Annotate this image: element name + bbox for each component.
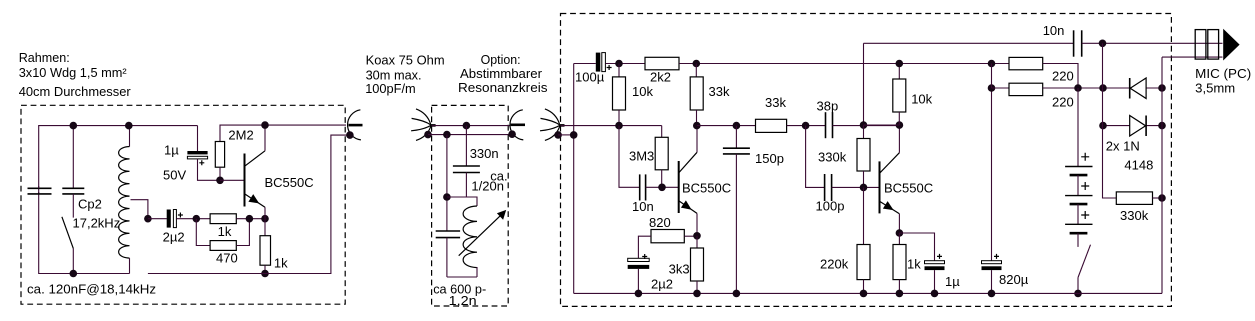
svg-text:Rahmen:: Rahmen: <box>19 50 70 65</box>
capacitor 150p <box>723 126 750 294</box>
svg-text:10k: 10k <box>911 92 932 107</box>
wire tap to C2u2 <box>148 218 167 220</box>
wire collector line Q2 <box>864 124 900 126</box>
node base Q2 <box>860 184 868 192</box>
resistor 1k (horizontal, emitter pair) <box>210 214 236 224</box>
wire jog down to R470 <box>196 219 210 246</box>
capacitor 820u <box>982 88 1002 293</box>
svg-text:3,5mm: 3,5mm <box>1195 81 1235 96</box>
node ground 2u2 <box>635 290 643 298</box>
capacitor 330n / 1-20n <box>453 126 480 197</box>
svg-text:ca. 120nF@18,14kHz: ca. 120nF@18,14kHz <box>27 282 156 297</box>
diode D2 1N4148 <box>1130 116 1146 137</box>
node LC top <box>443 193 451 201</box>
wire center conductor <box>432 125 511 127</box>
dashed border middle box <box>432 105 509 306</box>
svg-text:220: 220 <box>1052 69 1074 84</box>
svg-text:Abstimmbarer: Abstimmbarer <box>460 66 543 81</box>
wire shield column down <box>446 135 448 231</box>
node emitter ground <box>261 270 269 278</box>
resistor 330k stage2 bias <box>857 125 870 187</box>
coax connector B (middle box input) <box>411 109 436 140</box>
capacitor 2u2 stage1 <box>628 254 650 293</box>
capacitor 10n output <box>1074 30 1223 56</box>
node output rail diode column <box>1099 40 1107 48</box>
wire R470 right jog up <box>236 219 249 246</box>
node 150p tap <box>733 122 741 130</box>
node tap junction <box>144 215 152 223</box>
node base Q1 <box>658 184 666 192</box>
svg-text:1k: 1k <box>274 256 288 271</box>
wire diode column left <box>1103 43 1117 198</box>
svg-text:150p: 150p <box>755 151 784 166</box>
node collector top <box>261 121 269 129</box>
svg-text:BC550C: BC550C <box>884 181 933 196</box>
wire ground rail <box>574 292 1162 294</box>
resistor 2M2 <box>215 142 224 168</box>
wire C2u2 to R1k <box>176 218 210 220</box>
node emitter junction <box>261 215 269 223</box>
wire 330k right <box>1153 197 1163 199</box>
wire node A down <box>806 126 825 188</box>
wire collector line <box>697 125 756 127</box>
svg-text:17,2kHz: 17,2kHz <box>73 215 121 230</box>
svg-text:820µ: 820µ <box>999 272 1029 287</box>
node d1 left <box>1099 84 1107 92</box>
node 330n tap <box>463 122 471 130</box>
node 10k stage2 rail <box>896 60 904 68</box>
transistor Q1 BC550C stage1 <box>679 126 697 236</box>
wire node to coil top <box>447 197 477 206</box>
svg-text:2x 1N: 2x 1N <box>1106 139 1140 154</box>
capacitor 100u electrolytic <box>596 53 612 72</box>
svg-text:1k: 1k <box>218 224 232 239</box>
node shield branch <box>443 131 451 139</box>
node ground 1k <box>896 290 904 298</box>
wire Cp2 column <box>72 126 74 189</box>
svg-text:2M2: 2M2 <box>228 127 253 142</box>
capacitor Cp2 <box>62 188 84 194</box>
resistor 330k output <box>1116 192 1152 205</box>
svg-text:Koax 75 Ohm: Koax 75 Ohm <box>366 53 445 68</box>
wire riser collector to output rail <box>863 43 865 125</box>
wire v-rail main <box>679 63 1009 65</box>
resistor 1k stage2 <box>893 233 906 293</box>
node collector Q1 <box>693 122 701 130</box>
wire collector top line to coax <box>220 125 346 141</box>
svg-text:Option:: Option: <box>481 52 521 67</box>
wire input shield stub <box>558 134 574 136</box>
capacitor 2u2 electrolytic <box>167 210 183 228</box>
wire base <box>220 179 245 181</box>
svg-text:2µ2: 2µ2 <box>651 277 673 292</box>
svg-text:Cp2: Cp2 <box>78 197 102 212</box>
wire bottom right segment <box>148 135 350 273</box>
wire diode row 1 <box>1103 87 1162 89</box>
resistor 10k stage1 <box>613 64 626 126</box>
svg-text:100pF/m: 100pF/m <box>365 81 416 96</box>
node input <box>615 122 623 130</box>
resistor 33k horizontal <box>756 119 787 132</box>
capacitor 1u 50V electrolytic <box>187 126 220 181</box>
wire 33k to node A <box>787 125 826 127</box>
svg-text:470: 470 <box>216 250 238 265</box>
wire v-rail left stub <box>574 63 596 65</box>
node ground 1u <box>931 290 939 298</box>
svg-text:BC550C: BC550C <box>682 180 731 195</box>
resistor 470 <box>210 241 236 251</box>
switch S1 <box>1078 245 1091 294</box>
transistor Q2 BC550C stage2 <box>880 125 900 233</box>
svg-text:3k3: 3k3 <box>669 262 690 277</box>
node 330k right <box>1158 194 1166 202</box>
svg-text:100µ: 100µ <box>575 70 605 85</box>
svg-text:2k2: 2k2 <box>650 70 671 85</box>
node d2 right <box>1158 122 1166 130</box>
svg-text:10n: 10n <box>1043 23 1065 38</box>
wire left bottom <box>39 192 130 274</box>
connector MIC jack 3,5mm <box>1195 29 1239 61</box>
node 820u rail <box>988 60 996 68</box>
node tank top Cp2 <box>70 122 78 130</box>
capacitor 10n stage1 <box>640 174 679 200</box>
svg-text:100p: 100p <box>816 199 845 214</box>
dashed border left box <box>21 105 345 304</box>
switch 17,2kHz below Cp2 <box>62 194 73 274</box>
svg-text:38p: 38p <box>817 99 839 114</box>
right box stage 2 and output <box>574 23 1251 297</box>
svg-text:Resonanzkreis: Resonanzkreis <box>458 80 548 95</box>
dashed border right box <box>561 14 1172 307</box>
node coil top <box>125 122 133 130</box>
node d2 left <box>1099 122 1107 130</box>
coax connector D (right box input) <box>540 109 565 140</box>
svg-text:2µ2: 2µ2 <box>163 229 185 244</box>
wire output rail <box>864 42 1074 44</box>
node shield column <box>570 131 578 139</box>
svg-text:3M3: 3M3 <box>629 149 654 164</box>
wire input center conductor <box>561 125 662 127</box>
node battery ground <box>1074 290 1082 298</box>
node R1k left <box>193 215 201 223</box>
node d1 right <box>1158 84 1166 92</box>
svg-text:1k: 1k <box>907 257 921 272</box>
wire 2M2 bottom to base node <box>219 167 221 180</box>
node 33k top <box>693 60 701 68</box>
svg-text:1,2n: 1,2n <box>449 293 477 308</box>
coax connector A (left box output) <box>346 110 362 140</box>
node ground 150p <box>733 290 741 298</box>
wire R1k right to emitter node <box>236 218 262 220</box>
wire top tank <box>39 126 198 194</box>
node A <box>802 122 810 130</box>
svg-text:330n: 330n <box>470 146 499 161</box>
inductor variable tuning coil <box>447 206 506 277</box>
svg-text:330k: 330k <box>1120 208 1149 223</box>
svg-text:BC550C: BC550C <box>265 175 314 190</box>
capacitor 100p <box>825 174 880 201</box>
wire diode column right <box>1161 57 1163 293</box>
wire ground column left <box>573 64 575 294</box>
svg-text:220: 220 <box>1052 95 1074 110</box>
transistor Q1 BC550C (left box) <box>245 125 266 219</box>
node battery top <box>1074 84 1082 92</box>
wire mic ring line <box>1162 56 1223 58</box>
capacitor C fixed (120nF) <box>28 186 52 194</box>
wire v-rail stage1 <box>605 63 645 65</box>
resistor 3k3 <box>691 236 704 294</box>
node 820u branch <box>988 84 996 92</box>
wire shield line <box>428 134 512 136</box>
resistor 820 <box>638 230 697 259</box>
svg-text:220k: 220k <box>820 257 849 272</box>
node emitter Q2 <box>896 229 904 237</box>
node 10k top <box>615 60 623 68</box>
svg-text:33k: 33k <box>765 95 786 110</box>
coax connector C (middle box output) <box>508 110 525 140</box>
node collector line 330k <box>860 121 868 129</box>
node R470 jog <box>246 215 254 223</box>
diode D1 1N4148 <box>1130 78 1146 99</box>
node base Q1 left <box>216 177 224 185</box>
wire diode row 2 <box>1103 125 1162 127</box>
wire v-rail to 220 <box>991 64 993 89</box>
wire 10n branch <box>619 126 639 188</box>
resistor 33k stage1 collector <box>690 64 703 126</box>
resistor 220k <box>857 187 870 293</box>
resistor 3M3 <box>655 126 668 188</box>
node collector Q2 <box>896 121 904 129</box>
node tank bottom Cp2 <box>70 270 78 278</box>
right box main amplifier stage 1 <box>540 14 1171 307</box>
middle option box resonant circuit <box>365 52 548 308</box>
resistor 220 lower <box>992 83 1104 95</box>
svg-text:3x10 Wdg 1,5 mm²: 3x10 Wdg 1,5 mm² <box>19 65 128 80</box>
svg-text:1µ: 1µ <box>164 142 179 157</box>
svg-text:MIC (PC): MIC (PC) <box>1195 66 1251 81</box>
svg-text:40cm Durchmesser: 40cm Durchmesser <box>19 84 132 99</box>
resistor 2k2 <box>645 57 679 70</box>
node emitter Q1 <box>693 232 701 240</box>
node ground 820u <box>988 290 996 298</box>
battery B1 3 cells <box>1065 88 1092 247</box>
svg-text:10n: 10n <box>632 199 654 214</box>
svg-text:50V: 50V <box>163 168 186 183</box>
resistor 1k emitter vertical <box>260 219 271 274</box>
svg-text:820: 820 <box>649 215 671 230</box>
node ground 220k <box>860 290 868 298</box>
node ground 3k3 <box>693 290 701 298</box>
left box frame-antenna section <box>19 50 363 304</box>
svg-text:4148: 4148 <box>1124 158 1153 173</box>
svg-text:1µ: 1µ <box>945 274 960 289</box>
capacitor 1u stage2 <box>899 233 944 293</box>
capacitor 600p-1,2n variable <box>436 231 460 277</box>
svg-text:1/20n: 1/20n <box>471 179 504 194</box>
svg-text:33k: 33k <box>709 84 730 99</box>
wire coil tap <box>131 200 148 219</box>
inductor L frame coil <box>119 126 130 274</box>
svg-text:330k: 330k <box>818 150 847 165</box>
svg-text:10k: 10k <box>632 84 653 99</box>
capacitor 38p <box>826 112 900 138</box>
resistor 220 upper <box>1009 57 1078 88</box>
resistor 10k stage2 <box>893 64 906 126</box>
